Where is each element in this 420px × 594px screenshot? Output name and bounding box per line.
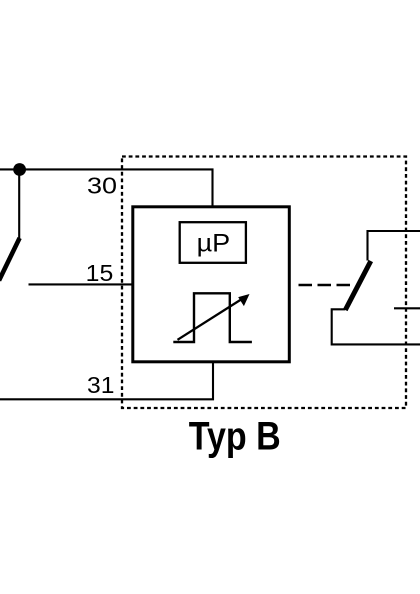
svg-text:15: 15: [86, 260, 114, 286]
relay contact lower terminal + output wire: [332, 309, 420, 344]
svg-text:31: 31: [87, 372, 114, 398]
relay contact top wire (87): [368, 231, 420, 261]
svg-text:µP: µP: [197, 230, 231, 258]
adjustment arrow head: [238, 294, 249, 306]
node junction dot: [13, 163, 26, 176]
wire terminal 15: [29, 283, 134, 285]
microprocessor box µP: [180, 222, 246, 263]
control unit box U1: [133, 207, 289, 362]
relay enclosure (dashed box): [122, 157, 406, 409]
wire terminal 30 (top horizontal + drop into control box): [0, 169, 213, 207]
actuator link (dashed) from control box to contact: [299, 284, 354, 287]
adjustable pulse symbol (waveform): [173, 293, 252, 342]
relay contact blade: [345, 261, 371, 310]
adjustment arrow shaft: [178, 297, 246, 340]
stub terminal (87a): [394, 307, 420, 309]
svg-text:30: 30: [87, 173, 117, 199]
switch S post (from node down): [18, 170, 20, 239]
switch S blade (open, angled off canvas): [0, 238, 20, 281]
svg-text:Typ B: Typ B: [189, 414, 281, 458]
wire terminal 31 (from control box bottom to left edge): [0, 362, 213, 399]
